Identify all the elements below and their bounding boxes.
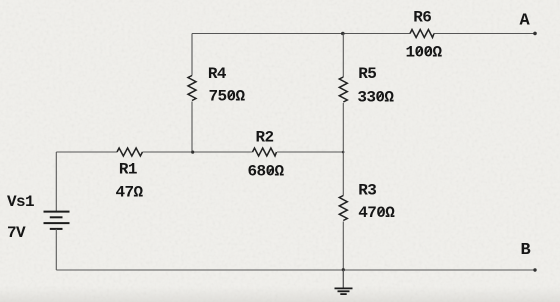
- node junction R4/middle rail: [191, 151, 194, 154]
- wire top rail left segment: [192, 33, 410, 35]
- resistor R5: [339, 65, 394, 106]
- ground: [335, 270, 353, 294]
- wire left branch lower: [55, 229, 57, 270]
- wire middle rail seg2: [143, 151, 253, 153]
- svg-text:R6: R6: [413, 8, 431, 26]
- resistor R6: [406, 8, 443, 61]
- resistor R4: [188, 65, 246, 106]
- node A: [520, 11, 537, 35]
- svg-text:750Ω: 750Ω: [209, 87, 246, 105]
- node B: [521, 241, 537, 272]
- resistor R3: [339, 181, 395, 222]
- wire top rail right segment: [434, 33, 535, 35]
- svg-text:470Ω: 470Ω: [358, 204, 395, 222]
- svg-text:R4: R4: [208, 65, 227, 83]
- node junction middle rail/R5R3: [342, 151, 345, 154]
- svg-text:R5: R5: [358, 65, 376, 83]
- svg-text:R3: R3: [358, 181, 376, 199]
- resistor R2: [248, 128, 285, 180]
- node junction bottom rail/ground: [342, 268, 345, 271]
- wire R5-R3 middle: [342, 103, 344, 196]
- wire R4 branch lower: [191, 102, 193, 153]
- svg-text:680Ω: 680Ω: [248, 163, 285, 181]
- resistor R1: [116, 148, 144, 201]
- svg-text:330Ω: 330Ω: [357, 88, 394, 106]
- wire left branch upper: [55, 152, 57, 212]
- battery Vs1: [7, 193, 70, 242]
- svg-text:100Ω: 100Ω: [406, 43, 443, 61]
- node junction top rail/R5: [341, 32, 345, 36]
- svg-text:R1: R1: [119, 160, 137, 178]
- svg-text:47Ω: 47Ω: [116, 183, 144, 201]
- wire middle rail seg1: [56, 151, 117, 153]
- wire bottom rail: [56, 269, 535, 271]
- svg-text:7V: 7V: [7, 224, 26, 242]
- wire R3 branch lower: [342, 222, 344, 271]
- svg-text:B: B: [521, 241, 531, 260]
- svg-text:A: A: [520, 11, 531, 30]
- svg-text:Vs1: Vs1: [7, 193, 34, 211]
- wire R4 branch upper: [191, 34, 193, 76]
- wire R5 branch upper: [342, 34, 344, 78]
- svg-text:R2: R2: [256, 128, 274, 146]
- wire middle rail seg3: [277, 151, 343, 153]
